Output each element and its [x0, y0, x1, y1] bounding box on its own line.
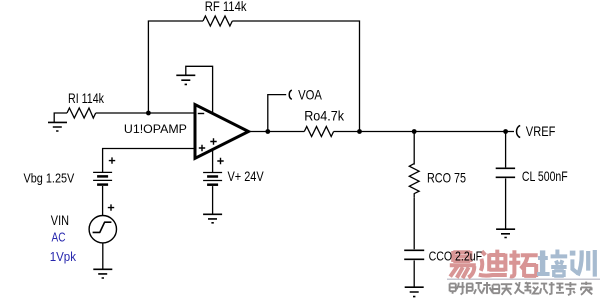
svg-text:1Vpk: 1Vpk [50, 249, 77, 264]
svg-text:Vbg 1.25V: Vbg 1.25V [24, 171, 75, 186]
svg-text:CCO 2.2uF: CCO 2.2uF [429, 248, 483, 263]
svg-text:RF 114k: RF 114k [205, 0, 247, 14]
svg-text:VIN: VIN [51, 213, 69, 228]
svg-text:VREF: VREF [526, 124, 556, 139]
svg-text:Ro4.7k: Ro4.7k [304, 109, 344, 124]
svg-text:U1!OPAMP: U1!OPAMP [124, 122, 187, 136]
svg-text:CL 500nF: CL 500nF [522, 169, 568, 184]
svg-text:RI 114k: RI 114k [68, 91, 104, 106]
svg-text:RCO 75: RCO 75 [427, 170, 466, 185]
svg-text:AC: AC [52, 229, 66, 244]
svg-text:VOA: VOA [298, 87, 323, 102]
svg-text:V+ 24V: V+ 24V [228, 169, 265, 184]
